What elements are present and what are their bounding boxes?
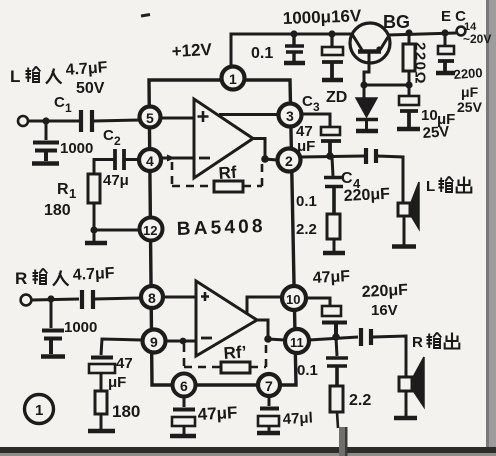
svg-text:47: 47 [116,355,133,372]
svg-text:5: 5 [146,110,154,126]
stray mark top [141,15,150,17]
capacitor 1000uF 16V electrolytic [322,34,343,80]
wire 220uF to speaker R [372,336,406,377]
op-amp U1b triangle [196,281,257,356]
dashed feedback path b [184,344,221,367]
wire output to pin11 [257,320,285,340]
wire pin9 to -input [166,340,196,343]
svg-text:C: C [54,94,65,111]
wire C4 to speaker L [377,156,403,203]
capacitor C2 47u [115,149,124,170]
resistor 2.2 zobel2 [330,386,343,428]
wire tap to pin3 [219,113,278,116]
op-amp U1a triangle [194,99,253,178]
svg-text:3: 3 [286,108,294,124]
resistor 220 ohm [403,33,415,85]
svg-text:2.2: 2.2 [349,392,371,409]
svg-text:47μF: 47μF [312,268,350,287]
plus mark b [201,292,209,301]
capacitor C1 4.7uF [81,110,92,132]
svg-text:9: 9 [150,334,158,350]
resistor 180 R channel [88,391,115,431]
svg-text:1: 1 [35,402,43,419]
dashed feedback path [172,162,214,186]
right scan edge strip [486,0,496,451]
pin 4 [139,149,161,171]
svg-text:11: 11 [290,335,304,350]
wire tap to pin10 [247,297,283,313]
node junction input [42,117,49,124]
svg-text:+12V: +12V [171,40,213,61]
figure number circle 1 [25,395,54,424]
svg-text:4.7μF: 4.7μF [72,265,115,284]
transistor BG (regulator) [350,23,390,85]
capacitor 1000p input [32,121,59,164]
svg-text:ZD: ZD [326,89,347,106]
pin 1 [222,67,245,90]
pin 6 [173,374,196,397]
node junction 220/10uF [405,81,412,88]
capacitor C3 47uF bootstrap [302,114,341,155]
svg-text:1000: 1000 [64,319,97,336]
junction dot pin9 wire [180,338,187,345]
IC package outline BA5408 [149,80,296,385]
wire pin8 to +input [164,296,196,299]
lead stain bottom [339,427,347,456]
node junction on rail [328,30,335,37]
svg-text:BA5408: BA5408 [176,216,266,240]
capacitor 47uF pin7 [257,397,280,433]
svg-text:47μl: 47μl [282,409,313,428]
pin 9 [143,330,166,353]
pin 10 [282,286,306,310]
zener diode ZD [356,85,378,131]
svg-text:220μF: 220μF [343,186,390,205]
wire to pin8 [94,298,141,299]
svg-text:8: 8 [148,290,156,306]
plus mark [198,111,209,122]
svg-text:μF: μF [461,84,479,100]
svg-text:4.7μF: 4.7μF [65,59,108,79]
junction tick pin4 wire [167,155,176,162]
svg-text:6: 6 [180,378,188,394]
svg-text:0.1: 0.1 [251,45,273,62]
svg-text:10: 10 [286,292,300,307]
capacitor 47uF bootstrap2 [306,298,347,336]
capacitor C4 220uF [366,148,376,164]
capacitor 0.1 (supply bypass) [284,34,305,63]
svg-text:2: 2 [285,153,293,169]
node wire zener/base [364,84,409,87]
svg-text:10: 10 [421,107,438,124]
node junction C3/output [326,152,334,160]
svg-text:2: 2 [114,134,121,148]
svg-text:R: R [57,181,69,198]
node junction R1 bottom [90,226,97,233]
pin 2 [278,149,301,172]
svg-text:1000μ16V: 1000μ16V [282,6,362,28]
svg-text:220μF: 220μF [361,282,408,301]
resistor R1 180 [88,174,100,230]
node junction base [360,81,367,88]
terminal R input [21,295,32,306]
svg-text:L: L [10,67,20,86]
dashed feedback path right [243,162,262,186]
speaker R [394,357,424,418]
terminal E C [457,27,466,36]
wire pin4 to -input [161,157,194,160]
resistor 2.2 zobel1 [323,214,345,253]
svg-text:Rf’: Rf’ [223,342,247,363]
wire input R [32,299,79,300]
wire pin9 branch [101,339,142,355]
svg-text:12: 12 [143,223,157,238]
capacitor 47uF pin6 [170,397,196,436]
terminal L input [18,116,28,126]
svg-text:16V: 16V [371,302,398,319]
pin 5 [140,107,161,128]
wire to pin12 [94,229,140,232]
svg-text:2.2: 2.2 [296,221,317,238]
wire C1 to pin5 [94,120,141,121]
svg-text:0.1: 0.1 [297,362,318,379]
node junction input R [47,295,54,302]
svg-text:1: 1 [69,186,76,201]
wire C2 left to R1 [94,160,114,175]
svg-text:47μ: 47μ [103,172,129,189]
pin 8 [141,286,163,308]
svg-text:7: 7 [265,378,273,394]
svg-text:47μF: 47μF [197,403,238,424]
wire C2 to pin4 [125,158,139,161]
node junction 220ohm top [405,29,412,36]
svg-text:R: R [412,334,423,351]
svg-text:BG: BG [383,12,410,32]
pin 3 [279,104,302,127]
capacitor 220uF 16V output R [361,328,371,346]
svg-text:μF: μF [108,374,126,391]
node junction on rail [290,30,297,37]
wire pin11 to 220uF [309,337,358,340]
svg-text:2200: 2200 [453,65,483,82]
svg-text:E C: E C [441,8,466,25]
svg-text:1: 1 [229,71,237,87]
svg-text:220Ω: 220Ω [412,42,429,85]
svg-text:1: 1 [65,101,72,115]
bottom scan border line [0,447,496,453]
node junction output b [264,335,272,343]
capacitor 10uF 25V [397,85,420,129]
svg-text:C: C [302,93,313,110]
wire input to C1 [28,120,80,123]
svg-text:C: C [103,127,114,144]
capacitor 0.1 zobel2 [326,338,348,386]
pin 11 [285,329,309,353]
wire pin2 to C4 [301,156,364,157]
svg-text:Rf: Rf [218,163,238,183]
capacitor 1000p R input [41,300,65,357]
svg-text:1000: 1000 [60,140,93,157]
svg-text:0.1: 0.1 [296,193,317,210]
capacitor 2200uF 25V [436,33,455,73]
minus mark b [201,337,212,340]
pin 7 [258,374,280,396]
svg-text:180: 180 [44,202,71,219]
node junction output [261,155,269,163]
svg-text:~20V: ~20V [463,32,491,46]
svg-text:4: 4 [146,153,154,169]
resistor Rf' [221,362,250,373]
minus mark [199,157,210,160]
svg-text:25V: 25V [457,99,483,115]
speaker L [392,182,419,247]
pin 12 [140,218,163,241]
svg-text:R: R [15,269,27,288]
node junction bootstrap2 [332,333,340,341]
wire output to pin2 [253,139,277,161]
capacitor 47uF pin9 [89,358,115,392]
resistor Rf [214,181,243,192]
wire pin5 to +input [161,117,194,120]
wire rail transistor to EC terminal [388,33,456,35]
svg-text:180: 180 [112,402,140,421]
node junction 2200uF top [441,29,448,36]
svg-text:3: 3 [313,100,320,114]
svg-text:50V: 50V [76,80,105,97]
svg-text:L: L [426,178,435,195]
wire +12V rail to pin 1 [231,34,351,67]
dashed feedback path b right [250,343,266,367]
capacitor 0.1 zobel1 [324,157,344,214]
svg-text:25V: 25V [422,123,450,142]
ground R1 [85,231,107,243]
capacitor 4.7uF R [82,290,93,309]
